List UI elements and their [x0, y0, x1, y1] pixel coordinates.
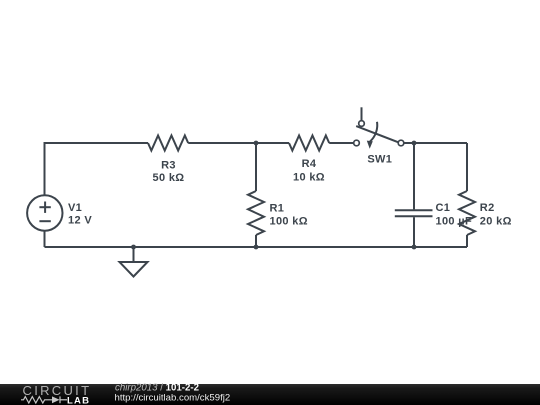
svg-text:R1: R1 [270, 203, 285, 215]
wire top-left to R3 [45, 142, 149, 143]
svg-text:R3: R3 [161, 160, 176, 172]
svg-text:LAB: LAB [67, 395, 90, 405]
svg-text:R4: R4 [302, 158, 317, 170]
svg-text:R2: R2 [480, 202, 495, 214]
svg-text:V1: V1 [68, 202, 82, 214]
footer logo waveform [21, 396, 67, 403]
svg-text:10 kΩ: 10 kΩ [293, 172, 325, 184]
svg-text:100 kΩ: 100 kΩ [270, 216, 308, 228]
wire R2 bottom lead [466, 235, 468, 247]
wire C1 top lead [413, 143, 415, 209]
wire R1 top lead [255, 143, 257, 191]
node junction bottom R1 [254, 245, 259, 250]
wire V1 bottom lead [44, 231, 46, 247]
svg-text:20 kΩ: 20 kΩ [480, 216, 512, 228]
node junction top R1 [254, 141, 259, 146]
svg-text:50 kΩ: 50 kΩ [153, 172, 185, 184]
footer bar [0, 384, 540, 405]
svg-text:http://circuitlab.com/ck59fj2: http://circuitlab.com/ck59fj2 [115, 393, 231, 404]
wire switch to right branch [404, 142, 467, 144]
svg-text:C1: C1 [436, 202, 451, 214]
wire C1 bottom lead [413, 217, 415, 247]
resistor R3 [148, 136, 188, 151]
switch SW1 [354, 107, 404, 148]
svg-text:SW1: SW1 [367, 154, 392, 166]
node junction top C1 [412, 141, 417, 146]
resistor R2 [459, 191, 475, 235]
svg-text:12 V: 12 V [68, 214, 92, 226]
wire R3 to R4 [188, 142, 289, 144]
svg-text:100 µF: 100 µF [436, 216, 473, 228]
wire R2 top lead [466, 143, 468, 191]
resistor R4 [289, 136, 329, 151]
node junction bottom C1 [412, 245, 417, 250]
wire R1 bottom lead [255, 235, 257, 247]
resistor R1 [248, 191, 264, 235]
voltage source V1 [27, 195, 62, 230]
wire bottom rail [45, 246, 468, 248]
capacitor C1 [395, 210, 433, 216]
wire V1 top lead to top-left corner [44, 143, 46, 195]
node junction ground [131, 245, 136, 250]
ground [120, 247, 148, 277]
wire R4 to switch [329, 142, 353, 144]
